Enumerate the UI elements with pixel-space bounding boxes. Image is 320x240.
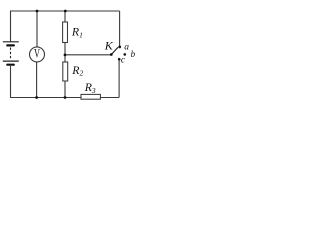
wire voltmeter bottom branch [36,62,38,98]
voltmeter V [30,47,45,62]
node junction: bottom wire / voltmeter [35,96,38,99]
battery E dashed middle (more cells) [10,48,12,60]
battery E plate short thick (bottom cell negative) [6,64,15,66]
svg-text:R3: R3 [84,80,96,95]
node junction: bottom wire / R2 [64,96,67,99]
resistor R2 [63,62,84,81]
node junction: top wire / R1 [64,10,67,13]
wire middle horizontal to switch pivot [65,54,111,56]
svg-text:V: V [34,47,40,61]
svg-text:b: b [131,49,136,59]
svg-text:K: K [104,38,114,52]
switch K blade [111,47,118,54]
resistor R3 [81,80,100,99]
wire left upper [10,11,12,42]
wire left lower [10,66,12,98]
svg-text:R1: R1 [71,25,83,40]
svg-text:a: a [124,42,129,52]
battery E plate long (bottom cell positive) [3,60,19,62]
node junction: middle R1-R2 tap [64,54,67,57]
wire from contact c down to bottom wire [118,59,120,97]
node contact a [118,46,121,49]
battery E plate long (top cell positive) [3,41,19,43]
svg-text:c: c [121,55,126,65]
battery E plate short thick (top cell negative) [6,44,15,46]
svg-text:R2: R2 [71,63,83,78]
wire R2 bottom stub [64,81,66,98]
wire R1-R2 middle stub [64,43,66,63]
resistor R1 [63,22,83,43]
wire top [11,10,120,12]
wire voltmeter top branch [36,11,38,47]
node contact c [118,58,121,61]
node switch pivot [110,53,113,56]
node junction: top wire / voltmeter [36,10,39,13]
wire right upper (top wire down to contact a) [119,11,121,47]
wire bottom [10,97,119,99]
node contact b [124,53,127,56]
wire R1 top stub [64,11,66,22]
